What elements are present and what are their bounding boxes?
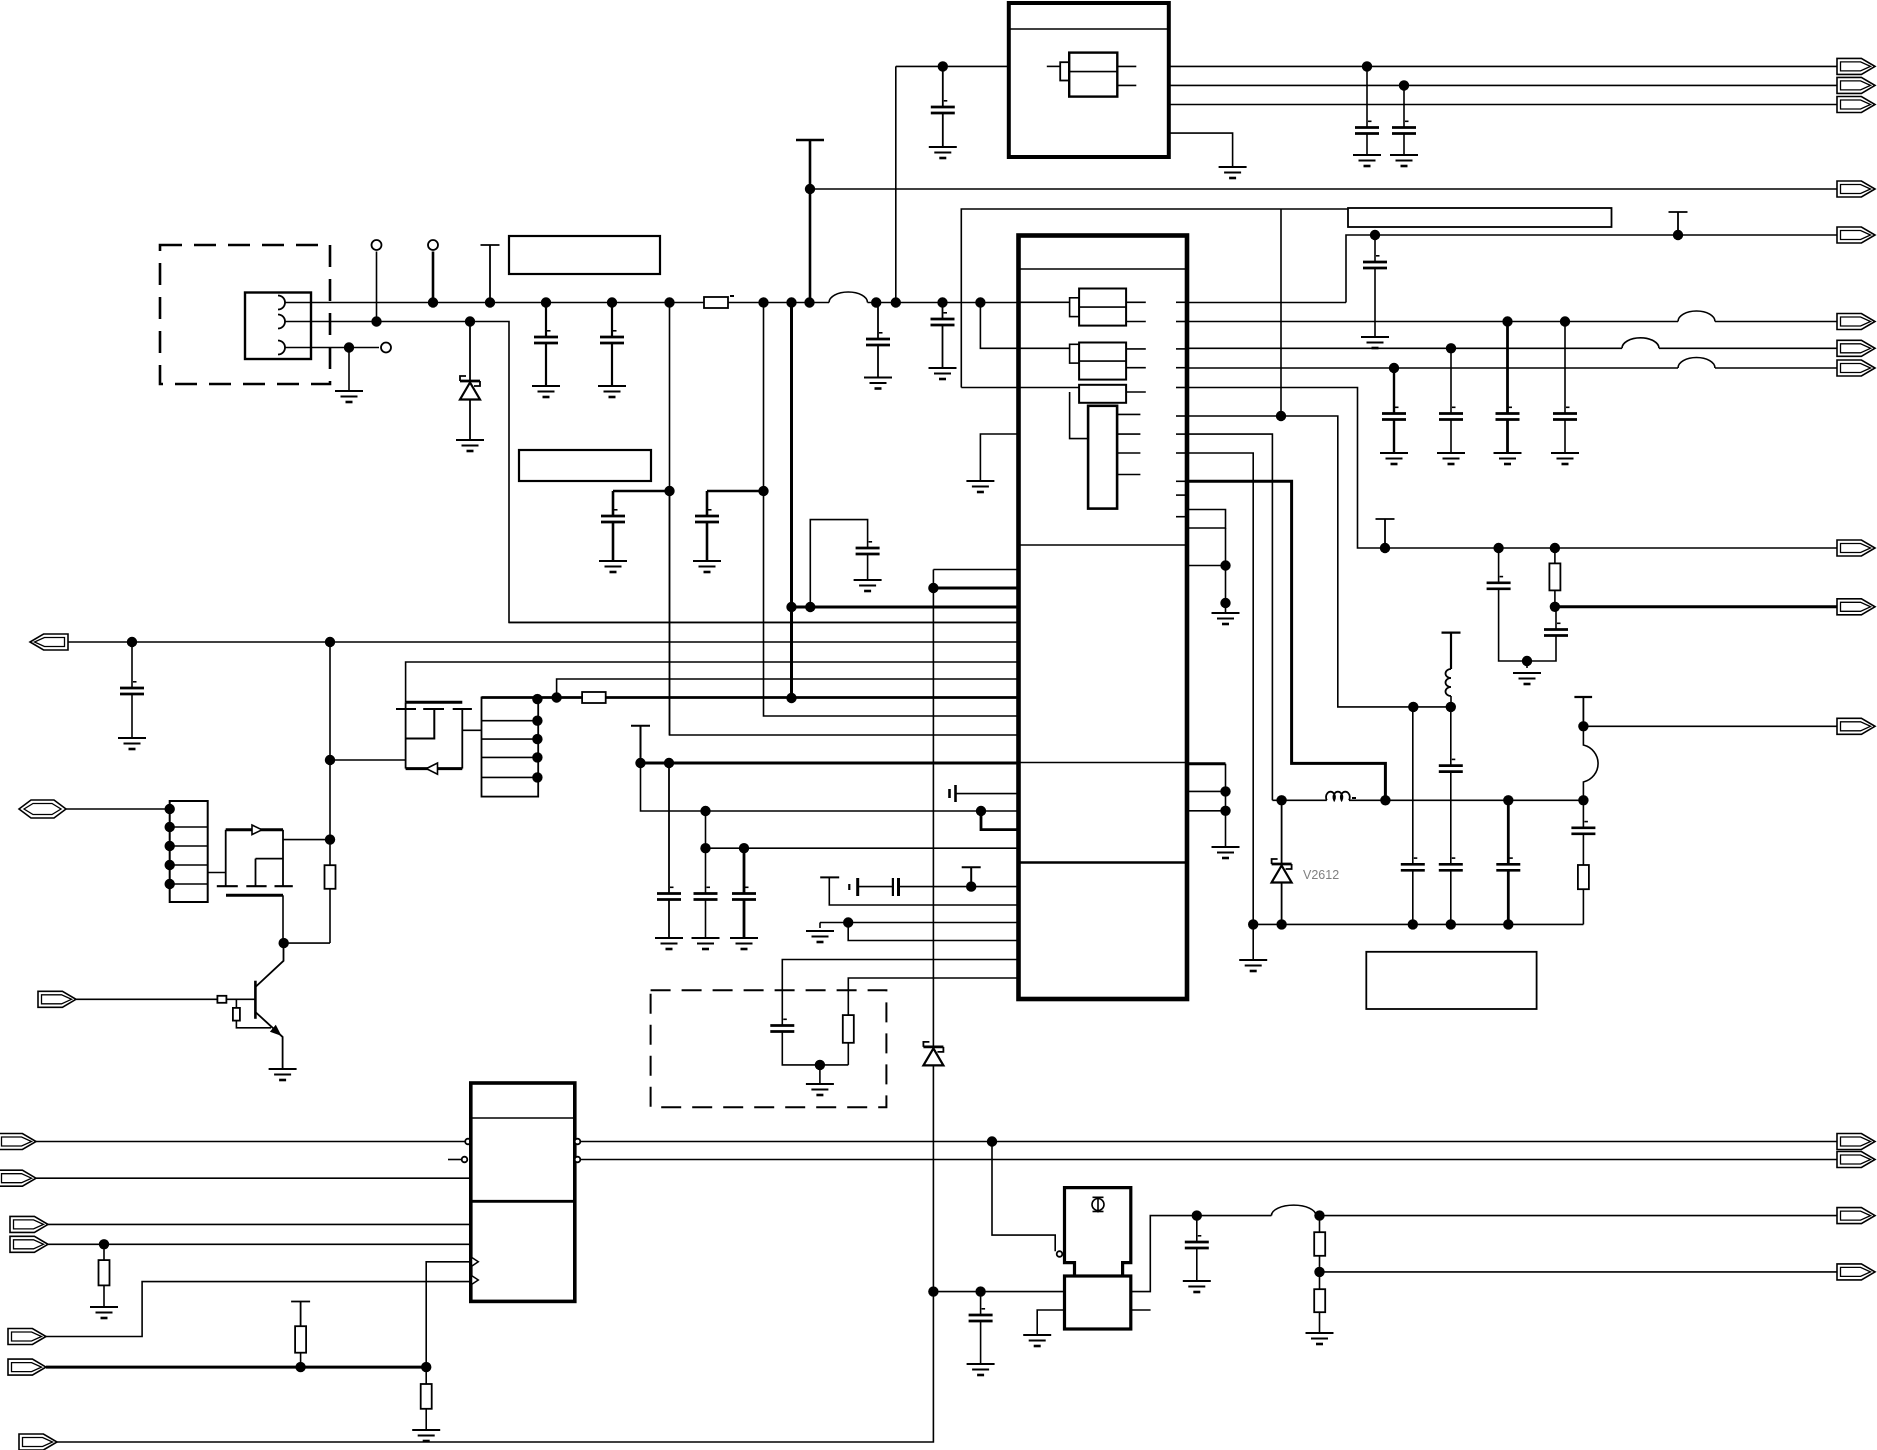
IC U1 divider 3 [1019, 762, 1188, 764]
wire x705 cap lead [705, 848, 707, 893]
wire vert x763 [764, 303, 1019, 717]
cap C29 lead [1196, 1216, 1198, 1242]
node y811 x705 [700, 806, 710, 816]
IC T1 left pin [1019, 301, 1070, 303]
capacitor C16 [1487, 576, 1511, 589]
T-bar x1583 [1574, 696, 1592, 698]
label box 3 [1348, 208, 1612, 227]
wire y368 IC-hump [1187, 367, 1678, 369]
capacitor C9 [1355, 121, 1379, 134]
zener diode V2612 [1272, 859, 1292, 883]
wire y811 path [641, 763, 1019, 811]
transformer T0 midline [1069, 71, 1117, 73]
cap C11 lead [1374, 235, 1376, 262]
wire x1583 stem [1582, 697, 1584, 726]
T-stub x971 [962, 867, 981, 886]
wire y588 thick [933, 587, 1018, 590]
ground module [1219, 167, 1247, 178]
antenna stub T1 [481, 245, 500, 303]
wire C19 down [1450, 772, 1452, 865]
left tag y809 [19, 800, 66, 818]
node y924 x1413 [1408, 919, 1418, 929]
wire x705 link [705, 811, 707, 848]
T-stub x1451 [1442, 633, 1461, 669]
wire y679 link [557, 679, 1019, 698]
cap C16 lead [1498, 548, 1500, 583]
wire R3 to y924 [1582, 889, 1584, 924]
RP1 divider 1 [170, 826, 208, 828]
ground C26 [730, 938, 758, 949]
R11 top lead [425, 1367, 427, 1384]
IC U1 divider 1 [1019, 268, 1188, 270]
wire y829 link [981, 811, 1019, 830]
resistor R4 [325, 865, 336, 889]
IC transformer T1 body [1079, 289, 1126, 326]
wire y726 to arrow [1583, 725, 1838, 727]
RP1 divider 2 [170, 845, 208, 847]
R13 top lead [1319, 1272, 1321, 1289]
node y1291 x980 [975, 1286, 985, 1296]
cap C29 gnd lead [1196, 1248, 1198, 1281]
wire y1336 elbow [46, 1282, 471, 1337]
dashed enclosure (mains input) [160, 245, 330, 384]
ground x820 [806, 1084, 834, 1095]
wire C27 down [782, 1032, 848, 1065]
IC right edge stub 7 [1176, 433, 1187, 435]
RP2 node 3 [532, 734, 542, 744]
cap C6 ground lead [706, 522, 709, 561]
cap C13 gnd lead [1450, 420, 1452, 454]
npn Q3 emitter arrow [270, 1025, 282, 1036]
ground y922 stub [806, 931, 834, 942]
ground y661 [1513, 673, 1541, 684]
node y924 x1253 [1248, 919, 1258, 929]
wire y1291 to crystal [933, 1291, 1064, 1293]
connector arrow y348 [1837, 340, 1875, 356]
npn Q3 base bar [254, 981, 257, 1019]
IC U1 divider 2 [1019, 544, 1188, 546]
wire y509-528 staple [1187, 510, 1226, 529]
crystal cap bar 2b [897, 878, 900, 896]
inductor hump y368 [1678, 358, 1715, 369]
resistor R7 [217, 996, 226, 1003]
IC tall winding pin d [1117, 474, 1140, 476]
npn Q3 emitter [255, 1012, 282, 1069]
capacitor C6 [695, 509, 719, 522]
wire y1159 stub [448, 1159, 462, 1161]
gnd stub y922 [819, 923, 821, 929]
IC T2 right pin b [1126, 367, 1146, 369]
pmos Q1 inner link [406, 709, 435, 739]
connector arrow y548 [1837, 540, 1875, 556]
wire x1583 below node [1582, 800, 1584, 828]
node y321 x1565 [1560, 316, 1570, 326]
ground C23 [118, 738, 146, 749]
cap C11 ground lead [1374, 268, 1376, 337]
node y661 x1527 [1522, 656, 1532, 666]
capacitor C5 [601, 509, 625, 522]
left arrow y1336 [8, 1329, 46, 1345]
ground C6 [693, 561, 721, 572]
R9 gnd lead [103, 1285, 105, 1307]
node x330 y760 [325, 755, 335, 765]
ground x1225 upper [1212, 613, 1240, 624]
wire2 segment pin2-elbow [285, 322, 1019, 623]
node y348 x1451 [1446, 343, 1456, 353]
node y236 x1375 [1370, 230, 1380, 240]
node y1064 x820 [815, 1060, 825, 1070]
ground C12 [1380, 453, 1408, 464]
crystal symbol [1092, 1197, 1104, 1213]
cap C4 lead [942, 303, 944, 320]
RP1 divider 3 [170, 864, 208, 866]
RP1 divider 4 [170, 883, 208, 885]
zener diode V1 [460, 376, 480, 400]
capacitor C23 [120, 681, 144, 694]
ground C29 [1183, 1281, 1211, 1292]
cap C9 lead [1366, 66, 1368, 127]
connector arrow y368 [1837, 360, 1875, 376]
node y548 x1498 [1493, 543, 1503, 553]
IC T3 right pin [1126, 391, 1146, 393]
wire y416 staircase [1187, 416, 1451, 707]
capacitor C20 [1439, 857, 1463, 870]
node x763 y491 [758, 486, 768, 496]
RP2 node 5 [532, 772, 542, 782]
nmos Q2 arrow [252, 825, 262, 835]
polar cap glyph y793 [950, 785, 956, 802]
node y706 x1413 [1408, 702, 1418, 712]
node y698 x556 [551, 692, 561, 702]
inductor L2 coils [1326, 792, 1350, 801]
wire TP2 stem [432, 252, 435, 303]
nmos Q2 channel [217, 885, 293, 887]
wire TP1 stem [376, 252, 378, 322]
node y1244 x104 [99, 1239, 109, 1249]
resistor R8 [233, 1008, 240, 1021]
cap C20 lower lead [1450, 870, 1452, 924]
wire pin3 ground stem [348, 348, 350, 392]
wire C22 to R3 [1582, 834, 1584, 865]
node y66 x942 [938, 61, 948, 71]
capacitor C12 [1382, 407, 1406, 420]
nmos Q2 right leg [282, 830, 284, 886]
ground crystal [1023, 1335, 1051, 1346]
R2 bottom lead [1554, 590, 1556, 606]
left arrow y1367 [8, 1359, 46, 1375]
IC T2 left pin [1019, 347, 1070, 349]
R8 link [236, 1021, 271, 1028]
node y924 x1281 [1276, 919, 1286, 929]
cap C8 lead [942, 66, 944, 107]
wire C17 to y606 node [1555, 607, 1557, 630]
crystal bottom box [1065, 1276, 1131, 1329]
wire x1225 upper vertical [1225, 528, 1227, 613]
ground C15 [1551, 453, 1579, 464]
cap C24 gnd lead [668, 900, 670, 939]
node y321 x1507 [1502, 316, 1512, 326]
node y800 x1281 [1276, 795, 1286, 805]
node y642 x132 [127, 637, 137, 647]
pmos Q1 source bar [406, 701, 463, 704]
wire clockpin1 link [426, 1262, 471, 1367]
wire y999 base [76, 998, 217, 1000]
T-stub x1678 [1669, 212, 1688, 235]
IC tall winding pin b [1117, 433, 1140, 435]
wire y1272 to arrow [1320, 1271, 1839, 1273]
wire y189 to connector [810, 188, 1838, 190]
resistor R10 [295, 1326, 306, 1353]
nmos Q2 inner link [256, 858, 284, 860]
capacitor C26 [732, 887, 756, 900]
IC transformer T2 midline [1079, 360, 1126, 362]
IC right edge stub 5 [1176, 387, 1187, 389]
left arrow y1141 [0, 1134, 36, 1150]
wire IC pin y810 [1187, 810, 1226, 812]
left arrow y1224 [10, 1216, 48, 1232]
wire y943 [284, 942, 330, 944]
node y642 x330 [325, 637, 335, 647]
wire y924 [1253, 923, 1583, 925]
wire x1451 down [1450, 707, 1452, 766]
R9 top lead [103, 1244, 105, 1260]
R12 lower lead [1319, 1256, 1321, 1272]
node y1272 x1319 [1314, 1267, 1324, 1277]
wire y698 R5-IC thick [606, 696, 1019, 699]
wire y959 [782, 960, 1018, 1026]
transformer T0 body [1069, 53, 1117, 97]
RP2 divider 4 [482, 776, 539, 778]
node x933 y588 [928, 583, 938, 593]
RP2 divider 3 [482, 756, 539, 758]
block U2 divider 1 [471, 1117, 575, 1119]
wire module out1 [1169, 65, 1838, 67]
block U2 pin circle 2L [462, 1157, 468, 1163]
capacitor C21 [1496, 857, 1520, 870]
R11 gnd lead [425, 1409, 427, 1430]
test point TP2 [428, 240, 438, 250]
node x791 y698 [786, 693, 796, 703]
left arrow y642 [30, 634, 68, 650]
wire y368 hump-arrow [1715, 367, 1838, 369]
node y1215 x1196 [1192, 1210, 1202, 1220]
pmos Q1 right leg [461, 709, 463, 769]
wire1 IC to elbow [1187, 302, 1346, 304]
node y1367 x300 [295, 1362, 305, 1372]
ground C11 [1361, 337, 1389, 348]
nmos Q2 inner leg [255, 859, 257, 887]
wire y1141 right [581, 1141, 1839, 1143]
crystal cap bar 1b [856, 878, 859, 896]
R12 top lead [1319, 1216, 1321, 1233]
cap C4 ground lead [942, 325, 944, 368]
IC tall winding pin c [1117, 452, 1140, 454]
node TP2 on N-wire [428, 297, 438, 307]
left arrow y1244 [10, 1236, 48, 1252]
ground R11 [412, 1430, 440, 1441]
capacitor C28 [969, 1308, 993, 1321]
wire y348 IC-hump [1187, 347, 1622, 349]
right arrow y999 [38, 991, 76, 1007]
node y236 x1678 [1673, 230, 1683, 240]
nmos Q2 source bar [226, 894, 283, 897]
zener V1 ground lead [469, 400, 471, 441]
block U2 body [471, 1083, 575, 1301]
node y1141 x992 [987, 1136, 997, 1146]
ground C5 [599, 561, 627, 572]
T-stub x640 [631, 726, 650, 763]
R8 top lead [235, 999, 237, 1008]
nmos Q2 left leg [225, 830, 227, 886]
wire elbow1 cap drop [612, 491, 615, 516]
node wire1 x809 [804, 297, 814, 307]
node y606 x1555 [1550, 602, 1560, 612]
wire module out2 [1169, 84, 1838, 86]
wire1 segment resistor-hump [728, 302, 829, 304]
pmos Q1 drain bar [406, 767, 463, 770]
IC right edge stub 2 [1176, 321, 1187, 323]
R10 lower lead [300, 1353, 302, 1367]
RP2 divider 2 [482, 738, 539, 740]
wire vert x1281 [1280, 209, 1282, 416]
wire y321 hump-arrow [1715, 321, 1838, 323]
RP2 divider 1 [482, 720, 539, 722]
IC U1 body [1019, 236, 1188, 1000]
RP1 gate wire [208, 872, 226, 874]
wire vert x669 [669, 303, 671, 736]
connector arrow y104 [1837, 97, 1875, 113]
cap C1 lead [545, 303, 547, 338]
IC right edge stub 1 [1176, 301, 1187, 303]
block U2 clock pin 2 [472, 1276, 479, 1285]
wire crystal stem [829, 877, 1018, 905]
IC T2 right pin a [1126, 348, 1146, 350]
gnd stem x820 [819, 1065, 821, 1084]
node TP1 on L-wire [371, 316, 381, 326]
ground IC y434 [966, 481, 994, 492]
RP1 node 4 [165, 860, 175, 870]
cap C10 ground lead [1403, 134, 1405, 156]
node y924 x1451 [1446, 919, 1456, 929]
capacitor C7 [856, 541, 880, 554]
connector arrow y606 [1837, 599, 1875, 615]
node y811 x981 [976, 806, 986, 816]
wire1 segment pin1-resistor [285, 302, 704, 304]
capacitor C11 [1363, 255, 1387, 268]
wire y453 elbow [1187, 453, 1253, 924]
node wire1 x763 [758, 297, 768, 307]
cap C10 lead [1403, 85, 1405, 127]
IC U1 divider 4 [1019, 861, 1188, 863]
node y810 x1225 [1220, 806, 1230, 816]
node wire1 x546 [541, 297, 551, 307]
cap C14 lead [1506, 322, 1509, 414]
T-stub x1385 [1376, 519, 1395, 548]
inductor L2 mark [1352, 797, 1356, 799]
IC transformer T1 midline [1079, 306, 1126, 308]
transformer T0 right pin b [1117, 84, 1136, 86]
wire y209 [961, 209, 1348, 388]
module box top [1009, 3, 1169, 157]
capacitor C18 [1401, 857, 1425, 870]
node y791 x1225 [1220, 786, 1230, 796]
left arrow y1178 [0, 1170, 36, 1186]
node y726 x1583 [1578, 721, 1588, 731]
RP2 node 1 [532, 694, 542, 704]
resistor R5 [582, 692, 606, 703]
node wire1 x980 [975, 297, 985, 307]
wire y800 inductor segment [1272, 799, 1326, 801]
RP2 node 4 [532, 752, 542, 762]
cap C23 gnd lead [131, 694, 133, 738]
node y1215 x1319 [1314, 1210, 1324, 1220]
capacitor C8 [931, 100, 955, 113]
ground C3 [864, 378, 892, 389]
connector arrow y1141 [1837, 1134, 1875, 1150]
T-stub x300 [291, 1302, 310, 1327]
wire y321 IC-arrow [1187, 321, 1678, 323]
wire y1367 thick [46, 1366, 426, 1369]
wire x933 bottom elbow [57, 1292, 933, 1442]
node y368 x1394 [1389, 363, 1399, 373]
wire y236 [1346, 235, 1838, 303]
node y763 x669 [664, 758, 674, 768]
crystal out wire [1131, 1216, 1272, 1292]
IC right edge stub 4 [1176, 367, 1187, 369]
test point TP3 [381, 343, 391, 353]
block U2 divider 2 [471, 1200, 575, 1203]
node x810 y607 [805, 602, 815, 612]
RP1 node 1 [165, 804, 175, 814]
wire x1225 lower vertical [1225, 764, 1227, 847]
node y416 x1281 [1276, 411, 1286, 421]
T-bar x810 [796, 139, 824, 142]
pmos Q1 left leg [405, 702, 407, 768]
node y800 x1583 [1578, 795, 1588, 805]
ground C1 [532, 386, 560, 397]
connector X1 pin 3 [278, 341, 285, 355]
IC right edge stub 11 [1176, 516, 1187, 518]
ground at connector pin 3 [335, 391, 363, 402]
block U2 pin circle 2R [575, 1157, 581, 1163]
node x810 y189 [805, 184, 815, 194]
npn Q3 collector [255, 943, 283, 987]
wire crystal link [992, 1142, 1055, 1252]
transformer T0 left winding box [1060, 62, 1069, 80]
wire y622 link [509, 621, 1019, 623]
IC right edge stub 10 [1176, 494, 1187, 496]
wire elbow2 horizontal [707, 490, 764, 493]
wire vert x791 thick [790, 303, 793, 699]
wire y793 [956, 793, 1019, 795]
connector arrow y66 [1837, 58, 1875, 74]
wire y642 [68, 641, 1019, 643]
transformer T0 left pin [1047, 65, 1060, 67]
resistor R6 [843, 1015, 854, 1043]
wire R6 up [847, 1043, 849, 1065]
capacitor C3 [866, 332, 890, 345]
resistor pack RP1 box [170, 801, 208, 902]
IC tall winding pin a [1117, 413, 1140, 415]
connector arrow y236 [1837, 227, 1875, 243]
ground C14 [1494, 453, 1522, 464]
node y922 x848 [843, 917, 853, 927]
RP1 node 2 [165, 822, 175, 832]
wire L3 to node [1450, 696, 1452, 707]
node wire1 x791 [786, 297, 796, 307]
node y548 x1555 [1550, 543, 1560, 553]
capacitor C24 [657, 887, 681, 900]
